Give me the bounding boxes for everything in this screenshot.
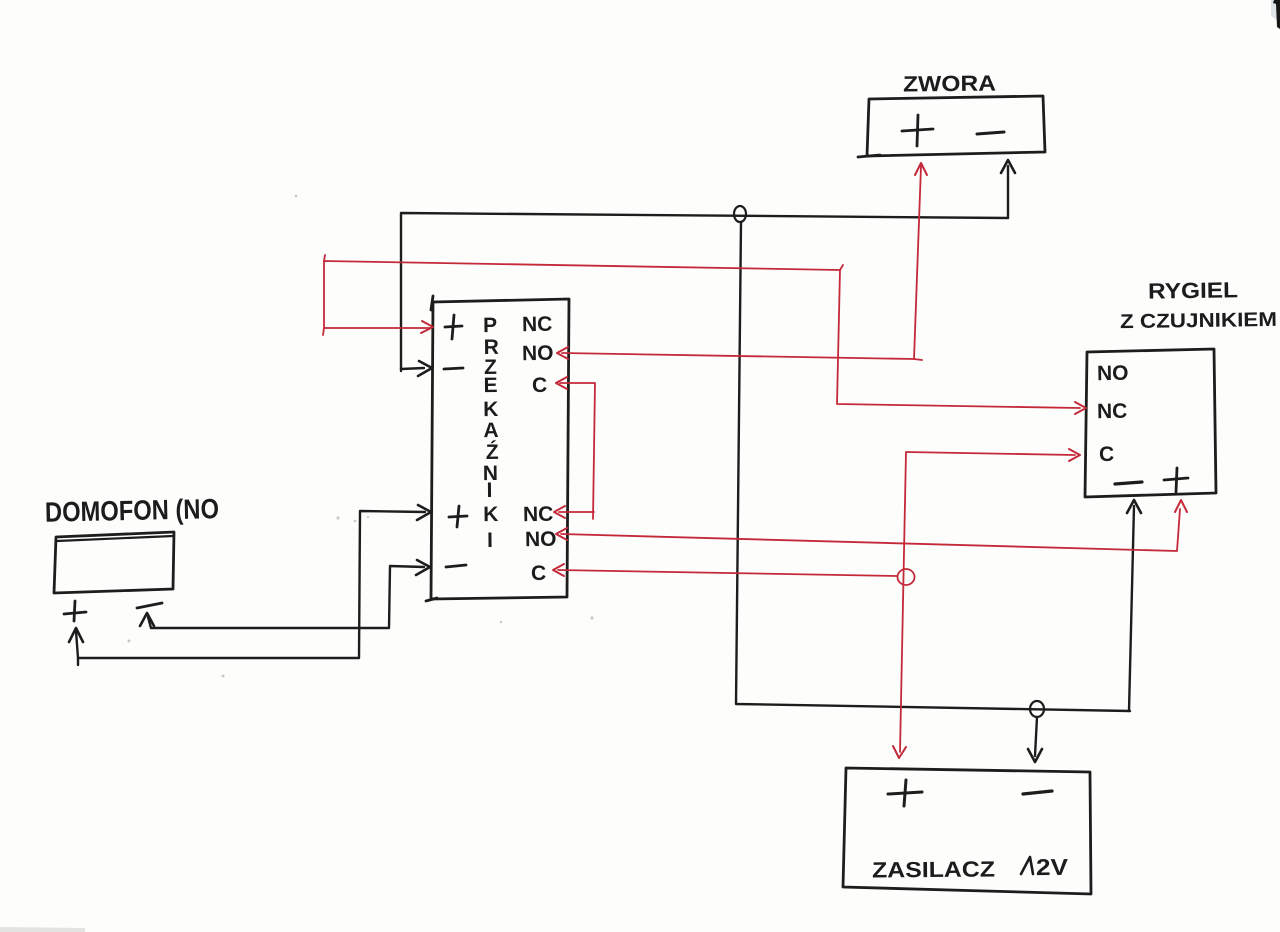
svg-text:Z CZUJNIKIEM: Z CZUJNIKIEM [1120, 309, 1277, 333]
svg-text:NC: NC [1097, 400, 1128, 424]
wire: relay + to rygiel NC (red) [323, 255, 1080, 408]
wire: domofon + to relay + (black) [76, 511, 425, 665]
arrowhead into relay + (bottom) [417, 505, 431, 520]
svg-text:K: K [483, 503, 498, 526]
svg-text:E: E [484, 374, 498, 397]
svg-text:RYGIEL: RYGIEL [1148, 277, 1238, 303]
arrowhead into rygiel + (red) [1175, 500, 1187, 512]
svg-text:P: P [483, 314, 497, 337]
wire: domofon - to relay - (black) [148, 566, 424, 628]
zasilacz box [843, 768, 1091, 894]
svg-text:NO: NO [1097, 362, 1129, 386]
arrowhead into relay + top (red) [421, 321, 433, 333]
svg-text:I: I [487, 529, 493, 552]
wire: rygiel + to relay NO bottom (red) [561, 509, 1180, 551]
zasilacz terminal - [1023, 791, 1052, 794]
junction node at bottom bus [1030, 701, 1044, 717]
arrowhead into rygiel - [1127, 500, 1141, 513]
svg-text:K: K [483, 398, 498, 421]
arrowhead into relay - (top) [418, 361, 432, 376]
svg-text:C: C [531, 562, 547, 585]
arrowhead into domofon - [140, 613, 154, 626]
svg-text:ZASILACZ: ZASILACZ [872, 856, 995, 882]
relay label PRZEKAŹNIKI (vertical) [481, 314, 500, 552]
relay terminal - (bottom left) [446, 565, 466, 567]
junction node at top bus [734, 206, 746, 222]
arrowhead into zwora - [1001, 160, 1015, 173]
domofon terminal + [64, 601, 86, 621]
relay terminal + (bottom left) [449, 506, 467, 527]
faint smudges [128, 195, 594, 678]
rygiel terminal - [1115, 482, 1142, 484]
arrowhead into domofon + [69, 628, 83, 642]
junction node red [898, 569, 915, 585]
relay box PRZEKAZNIKI [426, 296, 569, 601]
arrowhead into zwora + (red) [915, 163, 927, 175]
arrowhead into relay C bottom (red) [553, 564, 564, 576]
arrowhead into relay C top (red) [556, 377, 567, 389]
arrowhead into relay NC bottom (red) [554, 506, 565, 518]
svg-text:C: C [532, 374, 548, 397]
wire: zasilacz + / rygiel C / relay C bottom (red) [558, 452, 1075, 752]
arrowhead into zasilacz - [1028, 749, 1042, 762]
scan streak bottom left [0, 927, 85, 932]
wire: zwora- / relay- / power bus (black) [401, 166, 1134, 756]
svg-text:NO: NO [525, 528, 557, 552]
svg-text:A: A [483, 419, 498, 442]
svg-text:Ź: Ź [486, 441, 499, 464]
rygiel terminal + [1164, 468, 1188, 492]
zwora terminal + [902, 115, 933, 146]
arrowhead into zasilacz + (red) [893, 746, 906, 758]
zwora box [858, 96, 1045, 157]
domofon terminal - [137, 603, 162, 608]
zasilacz terminal + [888, 780, 922, 806]
relay terminal + (top left) [445, 315, 462, 339]
svg-text:NC: NC [522, 313, 553, 337]
domofon box [54, 532, 174, 593]
scan corner artifact [1271, 0, 1277, 20]
wire: relay C top to relay NC bottom (red loop) [559, 383, 595, 519]
arrowhead into relay - (bottom) [416, 560, 430, 575]
arrowhead into relay NO top (red) [557, 347, 568, 359]
svg-text:2V: 2V [1036, 854, 1069, 880]
arrowhead into relay NO bottom (red) [556, 528, 567, 540]
arrowhead into rygiel NC (red) [1075, 402, 1086, 414]
rygiel box [1085, 349, 1216, 497]
wire: zwora + to relay NO (red) [562, 166, 922, 360]
svg-text:DOMOFON (NO: DOMOFON (NO [45, 493, 220, 528]
zwora terminal - [977, 132, 1004, 134]
svg-text:I: I [487, 479, 493, 502]
svg-text:C: C [1099, 443, 1115, 466]
relay terminal - (top left) [444, 368, 463, 369]
arrowhead into rygiel C (red) [1069, 449, 1080, 461]
svg-text:NC: NC [523, 503, 554, 527]
svg-text:NO: NO [522, 342, 554, 366]
svg-text:ZWORA: ZWORA [903, 71, 996, 97]
